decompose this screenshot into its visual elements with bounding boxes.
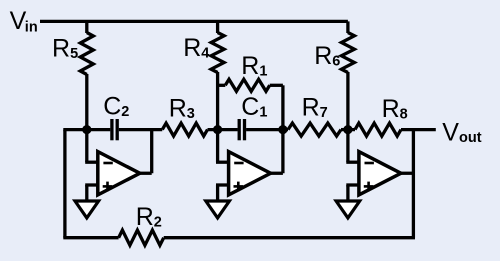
svg-text:R6: R6 (314, 42, 340, 70)
svg-text:R4: R4 (183, 34, 209, 62)
svg-text:Vin: Vin (10, 7, 38, 36)
svg-text:R5: R5 (52, 35, 78, 63)
svg-text:Vout: Vout (442, 119, 481, 147)
svg-text:C1: C1 (241, 93, 267, 121)
svg-text:R1: R1 (241, 52, 267, 80)
svg-text:R3: R3 (169, 94, 195, 122)
svg-text:R7: R7 (302, 93, 328, 121)
svg-text:R8: R8 (382, 95, 408, 123)
svg-text:R2: R2 (136, 203, 162, 231)
svg-text:C2: C2 (103, 92, 129, 120)
